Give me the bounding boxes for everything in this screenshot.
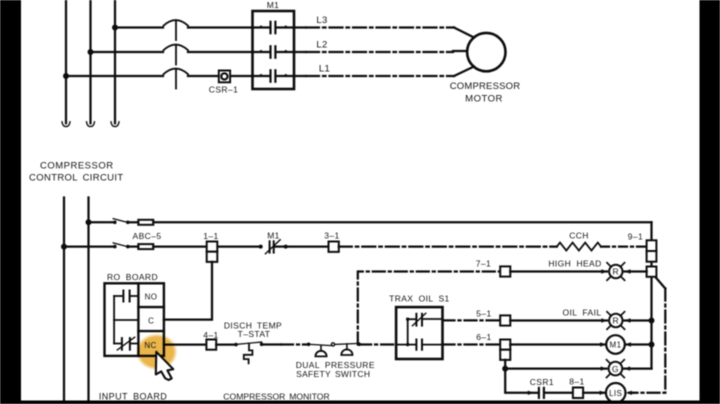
wire: control rail L1 vertical xyxy=(63,198,65,404)
resistor CCH xyxy=(557,243,601,251)
svg-text:5–1: 5–1 xyxy=(476,308,491,318)
TRAX NC contact (top) xyxy=(408,313,441,326)
wire: L3 to contactor xyxy=(188,26,252,28)
svg-text:RO BOARD: RO BOARD xyxy=(107,272,158,282)
svg-text:8–1: 8–1 xyxy=(569,377,584,387)
wire: L2 to contactor xyxy=(188,51,252,53)
arrow into M1 left xyxy=(600,342,606,346)
wire: LIS to dash-dot return xyxy=(629,392,634,394)
wire hook end rail B xyxy=(87,122,95,127)
arrow into R left xyxy=(601,269,607,273)
RO board NO contact xyxy=(114,291,138,302)
wire: L1 phase horizontal xyxy=(66,75,163,77)
svg-text:1–1: 1–1 xyxy=(203,231,218,241)
terminal 3-1 xyxy=(329,242,339,252)
pilot lamp R (OIL FAIL) xyxy=(607,312,625,330)
contact M1 aux NC on rung 2 xyxy=(259,240,329,254)
terminal 1-1 (double block) xyxy=(207,242,218,262)
svg-text:CSR–1: CSR–1 xyxy=(209,85,238,95)
compressor motor circle xyxy=(467,33,505,71)
wire hook end rail A xyxy=(62,122,70,127)
svg-text:7–1: 7–1 xyxy=(476,259,491,269)
svg-text:CONTROL CIRCUIT: CONTROL CIRCUIT xyxy=(29,173,124,184)
svg-text:L1: L1 xyxy=(319,64,330,75)
right bus vertical xyxy=(650,222,652,368)
wire: 6-1 rung dash-dot xyxy=(443,343,501,345)
wire: CCH to 9-1 dash-dot xyxy=(601,245,647,247)
RO BOARD outer box xyxy=(105,283,164,356)
svg-text:C: C xyxy=(148,317,154,326)
arrow into LIS left xyxy=(600,391,606,395)
svg-text:COMPRESSOR: COMPRESSOR xyxy=(40,161,114,172)
terminal 8-1 xyxy=(573,388,583,399)
wire: rung 2 dash-dot to CCH xyxy=(339,245,557,247)
svg-text:L3: L3 xyxy=(316,15,327,26)
switch ABC-5 pole 2 xyxy=(113,243,130,249)
breaker pole middle (L2) xyxy=(164,45,189,65)
svg-text:R: R xyxy=(612,267,619,277)
wire: 7-1 rung dash-dot (tee from vertical) xyxy=(358,272,500,345)
breaker pole bottom (L1) xyxy=(164,69,189,89)
RO board internal common vertical xyxy=(113,296,115,344)
node: G row tee xyxy=(502,366,508,372)
arrow into G right xyxy=(624,366,630,370)
svg-text:TRAX OIL S1: TRAX OIL S1 xyxy=(389,294,450,304)
t-stat heater element xyxy=(244,344,253,364)
arrow into LIS right xyxy=(626,391,632,395)
node: M1 row / bus xyxy=(649,342,655,348)
svg-text:OIL FAIL: OIL FAIL xyxy=(563,308,602,318)
letterbox bar right xyxy=(700,0,720,404)
terminal 6-1 (double block) xyxy=(500,340,510,360)
node: oil fail row / bus xyxy=(649,318,655,324)
svg-text:L2: L2 xyxy=(316,40,327,51)
coil M1 xyxy=(606,335,625,354)
svg-text:R: R xyxy=(612,316,619,326)
svg-text:3–1: 3–1 xyxy=(324,231,339,241)
dual pressure safety switch xyxy=(307,342,361,356)
svg-text:HIGH HEAD: HIGH HEAD xyxy=(548,259,601,269)
contact M1 pole L1 xyxy=(254,70,293,81)
wire: 4-1 to t-stat xyxy=(216,343,236,345)
wire: L3 feeder dash-dot to motor xyxy=(294,28,474,38)
contact M1 pole L3 xyxy=(254,22,293,33)
terminal 9-1 (double block) xyxy=(647,240,657,261)
letterbox bar left xyxy=(0,0,21,404)
wire: 1-1 drop to RO board C xyxy=(164,262,212,320)
wire: diagonal from terminal to dash-dot bus xyxy=(656,278,666,289)
terminal block on HIGH HEAD row xyxy=(647,267,657,277)
wire: rung 1 left segment xyxy=(89,221,115,223)
terminal 5-1 xyxy=(500,315,510,325)
RO BOARD cell divider column xyxy=(138,283,164,356)
contact CSR1 xyxy=(539,388,573,398)
wire: L1 to CSR-1 xyxy=(188,75,252,77)
wire: 6-1 to M1 coil to bus xyxy=(510,343,606,345)
svg-text:G: G xyxy=(612,364,619,374)
switch ABC-5 pole 1 xyxy=(113,219,130,225)
svg-text:9–1: 9–1 xyxy=(628,232,643,242)
terminal 7-1 xyxy=(500,266,510,276)
fuse rung 2 xyxy=(138,244,153,249)
node: junction rail C / line L3 xyxy=(112,25,118,31)
svg-text:4–1: 4–1 xyxy=(203,330,218,340)
svg-text:MOTOR: MOTOR xyxy=(465,94,503,105)
wire: L3 phase horizontal xyxy=(115,26,163,28)
node: rail L2 / rung 1 xyxy=(86,219,92,225)
wire: supply rail C vertical xyxy=(114,0,116,123)
fuse rung 1 xyxy=(138,220,153,225)
wire: L2 phase horizontal xyxy=(91,51,164,53)
svg-text:M1: M1 xyxy=(267,0,280,10)
arrow into R right xyxy=(625,269,631,273)
wire: rung 2 left segment xyxy=(64,245,115,247)
wire: 7-1 to R lamp to bus xyxy=(510,270,607,272)
breaker pole top (L3) xyxy=(164,20,189,40)
dome 1 xyxy=(320,345,322,351)
svg-text:SAFETY SWITCH: SAFETY SWITCH xyxy=(296,369,370,379)
wire: supply rail B vertical xyxy=(89,0,91,123)
wire: supply rail A vertical xyxy=(65,0,67,123)
wire: rung 2 to 1-1 terminal xyxy=(128,245,139,247)
coil LIS xyxy=(606,383,626,403)
wire: right dash-dot return bus xyxy=(634,289,665,393)
wire: L1 feeder dash-dot to motor xyxy=(294,67,474,77)
wire: L2 feeder dash-dot to motor xyxy=(294,51,467,52)
disch temp t-stat contact xyxy=(234,342,263,346)
orange click highlight xyxy=(0,0,1,1)
wire: 8-1 to LIS xyxy=(583,392,605,394)
wire: rung 1 across to right bus xyxy=(128,221,139,223)
wire: 5-1 rung dash-dot xyxy=(443,319,501,321)
arrow into M1 right xyxy=(625,342,631,346)
TRAX NO contact (bottom) xyxy=(408,340,441,350)
contactor M1 box xyxy=(253,11,295,89)
wire: G row xyxy=(505,367,606,369)
svg-text:6–1: 6–1 xyxy=(476,332,491,342)
wire: LIS row arrow mid xyxy=(528,391,534,395)
svg-text:INPUT BOARD: INPUT BOARD xyxy=(99,392,167,402)
letterbox bar bottom xyxy=(21,401,700,404)
svg-text:M1: M1 xyxy=(610,341,622,350)
node: junction rail B / line L2 xyxy=(88,49,94,55)
RO board NC contact xyxy=(114,337,138,350)
svg-text:T–STAT: T–STAT xyxy=(238,329,271,339)
terminal 4-1 xyxy=(206,340,216,350)
pilot lamp R (HIGH HEAD) xyxy=(607,263,625,281)
node: rail L1 / rung 2 xyxy=(61,244,67,250)
wire: 6-1 drop to G row and LIS row xyxy=(505,360,528,393)
arrow into R2 right xyxy=(625,318,631,322)
svg-text:LIS: LIS xyxy=(609,389,622,398)
arrow into G left xyxy=(601,366,607,370)
wire: NC row to 4-1 xyxy=(164,343,207,345)
wire: 5-1 to R lamp to bus xyxy=(510,319,607,321)
svg-text:COMPRESSOR MONITOR: COMPRESSOR MONITOR xyxy=(223,392,329,402)
svg-text:M1: M1 xyxy=(267,231,280,241)
svg-text:ABC–5: ABC–5 xyxy=(133,231,162,241)
pilot lamp G xyxy=(607,360,625,378)
current sensing relay CSR-1 xyxy=(219,71,230,83)
TRAX OIL S1 box xyxy=(396,307,442,359)
mouse cursor xyxy=(156,352,174,380)
svg-text:NO: NO xyxy=(145,293,158,302)
svg-text:CSR1: CSR1 xyxy=(530,377,554,387)
wire: control rail L2 vertical xyxy=(87,198,89,404)
dome 2 xyxy=(346,344,348,350)
TRAX internal input vertical xyxy=(398,318,409,347)
node: junction rail A / line L1 xyxy=(63,73,69,79)
wire hook end rail C xyxy=(111,122,119,127)
arrow into R2 left xyxy=(601,318,607,322)
wire: pressure switch to TRAX box dash-dot xyxy=(359,343,396,345)
svg-text:CCH: CCH xyxy=(569,231,589,241)
wire: t-stat to pressure switch xyxy=(262,343,281,345)
RO board C link xyxy=(114,319,138,321)
contact M1 pole L2 xyxy=(254,46,293,57)
svg-text:COMPRESSOR: COMPRESSOR xyxy=(450,81,521,92)
